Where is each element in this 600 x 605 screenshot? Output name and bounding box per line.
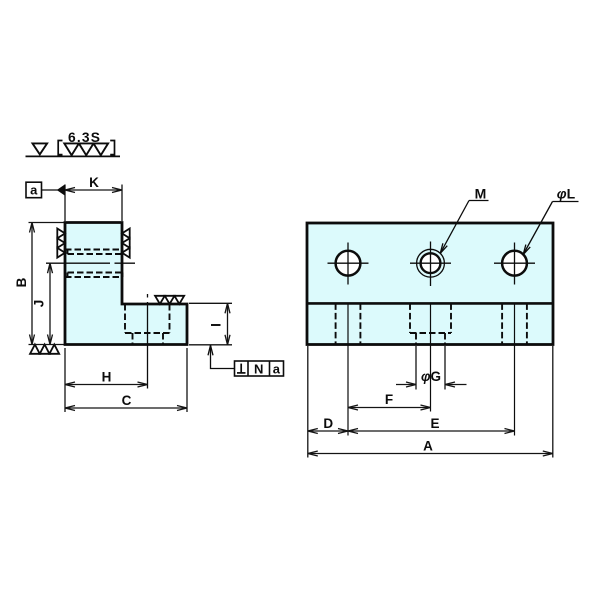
svg-text:C: C	[122, 393, 132, 408]
svg-text:F: F	[385, 392, 393, 407]
svg-text:φG: φG	[421, 369, 441, 384]
svg-text:a: a	[273, 361, 281, 376]
svg-text:a: a	[30, 183, 38, 198]
svg-text:M: M	[475, 185, 487, 201]
svg-text:A: A	[423, 438, 433, 453]
svg-text:J: J	[32, 300, 47, 308]
svg-text:K: K	[89, 175, 99, 190]
svg-text:φL: φL	[557, 185, 576, 201]
svg-text:N: N	[254, 361, 263, 376]
svg-text:D: D	[323, 416, 333, 431]
svg-text:I: I	[208, 323, 223, 327]
svg-text:B: B	[14, 277, 29, 287]
svg-text:H: H	[102, 370, 112, 385]
svg-text:E: E	[430, 416, 439, 431]
